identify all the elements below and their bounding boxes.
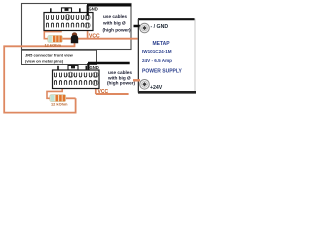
svg-text:VCC: VCC [98, 89, 109, 95]
svg-text:GND: GND [89, 7, 98, 12]
svg-text:use cables: use cables [103, 14, 127, 19]
svg-text:POWER SUPPLY: POWER SUPPLY [142, 68, 182, 74]
svg-text:- / GND: - / GND [151, 24, 169, 30]
svg-text:(high power): (high power) [107, 81, 136, 86]
svg-text:12 kOhm: 12 kOhm [51, 101, 68, 106]
svg-text:JR5 connector front view: JR5 connector front view [25, 53, 74, 58]
svg-text:METAP: METAP [153, 41, 171, 47]
svg-text:+24V: +24V [150, 85, 163, 91]
svg-text:IW101C24-1M: IW101C24-1M [142, 49, 172, 54]
svg-text:(view on metal pins): (view on metal pins) [25, 58, 64, 63]
svg-text:GND: GND [90, 65, 99, 70]
svg-text:VCC: VCC [89, 33, 100, 39]
svg-text:with big Ø: with big Ø [102, 21, 126, 26]
svg-text:(high power): (high power) [103, 27, 132, 32]
svg-text:24V - 6.5 Amp: 24V - 6.5 Amp [142, 58, 172, 63]
svg-text:12 kOhm: 12 kOhm [45, 42, 62, 47]
